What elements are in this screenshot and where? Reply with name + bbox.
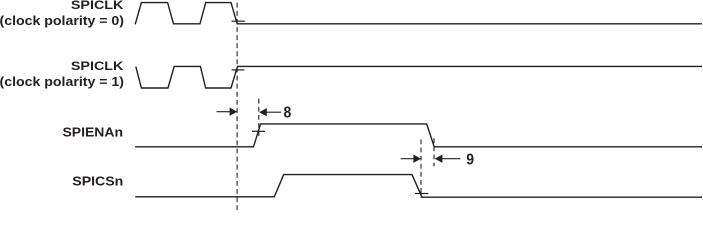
svg-text:SPICLK: SPICLK xyxy=(71,0,124,12)
svg-text:(clock polarity = 1): (clock polarity = 1) xyxy=(0,74,124,89)
dashed line at SPIENAn rising edge xyxy=(258,99,260,138)
wire SPICLK polarity 0 waveform xyxy=(135,3,702,25)
label SPICLK (clock polarity = 1) xyxy=(0,59,124,89)
tick on SPIENAn rising edge xyxy=(252,130,265,132)
tick on SPICLK1 rising edge xyxy=(232,69,245,71)
tick on SPICLK0 falling edge xyxy=(232,20,245,22)
label SPICLK (clock polarity = 0) xyxy=(0,0,124,28)
dashed line at SPIENAn falling edge xyxy=(433,138,435,166)
wire SPIENAn waveform xyxy=(135,124,702,147)
arrow pointing right to reference line (parameter 8) xyxy=(217,108,238,116)
svg-text:8: 8 xyxy=(284,105,292,122)
svg-text:9: 9 xyxy=(466,152,474,169)
svg-text:SPIENAn: SPIENAn xyxy=(63,125,124,139)
wire SPICSn waveform xyxy=(135,175,702,198)
arrow pointing left to SPIENAn edge (parameter 8) xyxy=(259,108,281,116)
arrow pointing left to SPIENAn falling edge line (parameter 9) xyxy=(435,155,461,163)
svg-text:SPICSn: SPICSn xyxy=(72,175,123,189)
svg-text:SPICLK: SPICLK xyxy=(71,59,124,73)
dashed line at SPICSn falling edge xyxy=(420,140,422,198)
wire SPICLK polarity 1 waveform xyxy=(136,66,702,88)
svg-text:(clock polarity = 0): (clock polarity = 0) xyxy=(0,13,124,28)
tick on SPICSn falling edge xyxy=(415,193,429,195)
arrow pointing right to SPICSn edge line (parameter 9) xyxy=(401,155,421,163)
dashed reference line at last clock edge xyxy=(236,3,238,213)
